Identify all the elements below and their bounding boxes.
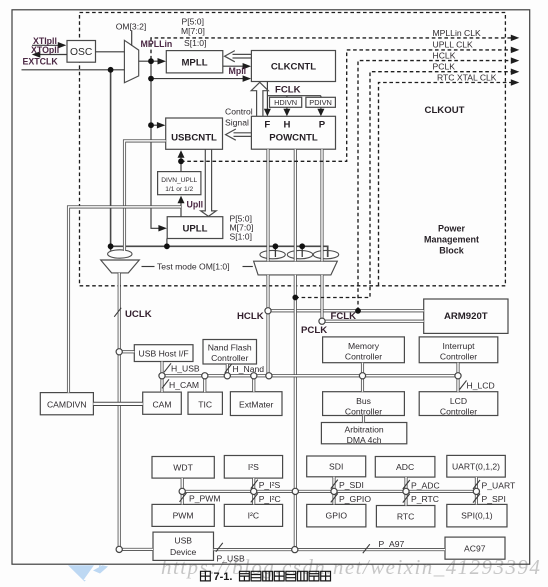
test mux switch ellipse F <box>260 250 285 258</box>
mux OM[3:2] clock source select <box>124 40 138 82</box>
svg-text:OM[3:2]: OM[3:2] <box>116 21 147 31</box>
arrowhead UPLL CLK <box>511 47 520 54</box>
arrowhead XTOpll <box>32 51 41 58</box>
node APB bus SDI/GPIO circle <box>331 488 337 494</box>
svg-text:UCLK: UCLK <box>125 309 152 320</box>
block CLKCNTL <box>251 51 335 82</box>
node APB bus P_PWM circle <box>179 488 185 494</box>
wire test mode label left segment <box>142 266 155 268</box>
junction HCLK clkout tap <box>355 308 361 314</box>
svg-text:FCLK: FCLK <box>331 311 357 322</box>
dashed net MPLLin CLK to CLKOUT <box>151 38 511 60</box>
bus slash P_UART <box>473 480 480 489</box>
wire EXTCLK to mux <box>22 69 125 71</box>
wire UCLK into USB Device <box>119 548 153 551</box>
svg-text:Device: Device <box>170 547 196 557</box>
svg-text:AC97: AC97 <box>464 544 486 554</box>
svg-text:UPLL: UPLL <box>182 224 207 235</box>
svg-text:H_CAM: H_CAM <box>169 380 199 390</box>
node AHB bus TIC circle <box>202 373 208 379</box>
bus slash P_ADC <box>403 480 410 489</box>
wire FCLK to ARM920T <box>322 320 424 323</box>
wire MPLLin branch to USBCNTL <box>151 124 160 126</box>
block TIC <box>188 392 222 414</box>
arrowhead H into POWCNTL <box>283 109 290 117</box>
junction UPLL bottom tap <box>164 243 170 249</box>
svg-text:H: H <box>284 120 291 131</box>
junction MPLLin to CLKCNTL <box>148 76 154 82</box>
block UPLL <box>167 217 223 239</box>
svg-text:H_Nand: H_Nand <box>233 364 265 374</box>
svg-text:USB Host I/F: USB Host I/F <box>139 349 189 359</box>
wire ADC RTC tap on APB bus <box>404 477 407 505</box>
watermark csdn logo blue chevron <box>68 565 102 581</box>
test mux left switch ellipse <box>108 250 132 258</box>
arrowhead MPLLin into CLKCNTL <box>243 75 252 82</box>
block UART <box>447 455 506 477</box>
junction EXTCLK test tap <box>108 67 114 73</box>
wire Memory Controller to Bus Controller via AHB bus <box>361 363 364 392</box>
hollow arrow control from POWCNTL to USBCNTL <box>226 129 252 140</box>
block Interrupt Controller <box>419 337 498 363</box>
node HCLK branch circle <box>265 308 271 314</box>
wire UART SPI tap on APB bus <box>475 477 478 504</box>
svg-text:PCLK: PCLK <box>301 325 327 336</box>
svg-text:P_PWM: P_PWM <box>189 493 221 503</box>
bus slash P_PWM <box>180 493 187 502</box>
block USBCNTL <box>166 118 223 149</box>
wire HCLK branch to ARM920T <box>268 309 424 312</box>
svg-text:UPLL CLK: UPLL CLK <box>433 40 474 50</box>
svg-text:1/1 or 1/2: 1/1 or 1/2 <box>165 186 193 193</box>
svg-text:Controller: Controller <box>345 352 382 362</box>
wire I2S I2C tap on APB bus <box>252 478 255 504</box>
Power Management Block dashed boundary <box>80 13 506 286</box>
wire H output POWCNTL to test mux <box>294 149 297 261</box>
wire P_USB P_A97 line to AC97 <box>214 548 446 551</box>
junction MPLLin node <box>148 58 154 64</box>
svg-text:Upll: Upll <box>187 199 204 209</box>
dashed net PCLK to CLKOUT <box>295 72 511 298</box>
block Memory Controller <box>323 337 405 363</box>
svg-text:Power: Power <box>438 224 466 234</box>
svg-text:SPI(0,1): SPI(0,1) <box>461 511 493 521</box>
block ADC <box>375 457 435 478</box>
arrowhead into USBCNTL <box>157 122 166 129</box>
svg-text:P_ADC: P_ADC <box>411 481 440 491</box>
divider DIVN_UPLL <box>158 172 201 195</box>
svg-text:DMA 4ch: DMA 4ch <box>347 435 382 445</box>
bus slash P_GPIO <box>331 493 338 502</box>
bus slash P_I2S <box>251 480 258 489</box>
svg-text:Block: Block <box>439 246 465 256</box>
junction UPLL CLK tap <box>178 158 184 164</box>
svg-text:P_RTC: P_RTC <box>411 494 439 504</box>
svg-text:FCLK: FCLK <box>275 84 301 95</box>
svg-text:CLKOUT: CLKOUT <box>425 105 465 116</box>
block RTC <box>376 506 435 527</box>
wire UCLK tap to USB Host I/F <box>119 350 134 353</box>
svg-text:CAM: CAM <box>152 399 171 409</box>
bus slash P_RTC <box>403 494 410 503</box>
block ExtMater <box>230 392 282 416</box>
svg-text:P_SDI: P_SDI <box>339 480 364 490</box>
block POWCNTL <box>251 116 335 149</box>
arrowhead P into POWCNTL <box>317 109 324 117</box>
wire H_Nand tap Nand Flash to AHB bus <box>226 364 229 376</box>
svg-text:ARM920T: ARM920T <box>444 311 488 322</box>
svg-text:I²S: I²S <box>248 462 259 472</box>
wire divided UPLL clock to CAMDIVN <box>69 207 182 393</box>
svg-text:HCLK: HCLK <box>237 311 264 322</box>
bus slash H_CAM <box>162 379 169 388</box>
block I2C <box>224 504 282 526</box>
svg-text:CLKCNTL: CLKCNTL <box>271 62 316 73</box>
svg-text:XTOpll: XTOpll <box>31 45 59 55</box>
block USB Host I/F <box>134 345 193 362</box>
arrowhead Mpll into CLKCNTL <box>243 63 252 69</box>
bus slash H_USB <box>164 363 171 372</box>
node PCLK corner circle at P_USB/P_A97 <box>292 547 298 553</box>
svg-text:Signal: Signal <box>225 117 249 127</box>
node AHB bus HCLK circle <box>266 373 272 379</box>
svg-text:Controller: Controller <box>345 406 382 416</box>
wire PCLK from mux down to APB bus and AC97 line <box>294 275 297 550</box>
svg-text:I²C: I²C <box>248 511 259 521</box>
junction test tap F <box>273 243 279 249</box>
svg-text:P[5:0]: P[5:0] <box>182 16 204 26</box>
wire WDT PWM tap on APB bus <box>181 478 184 504</box>
wire DIVN_UPLL output up to USBCNTL <box>180 156 182 172</box>
wire Mpll output to CLKCNTL <box>223 65 246 67</box>
test mux switch ellipse H <box>287 250 312 258</box>
wire USB Host and CAM taps on AHB bus <box>160 362 163 393</box>
wire P output POWCNTL to test mux <box>320 149 323 261</box>
svg-text:EXTCLK: EXTCLK <box>23 56 59 66</box>
divider HDIVN <box>270 97 302 107</box>
block CAM <box>143 392 182 414</box>
svg-text:M[7:0]: M[7:0] <box>181 26 205 36</box>
svg-text:P_GPIO: P_GPIO <box>339 494 371 504</box>
arrowhead RTC XTAL CLK <box>511 79 520 86</box>
wire XTIpll into OSC <box>32 44 61 46</box>
svg-text:S[1:0]: S[1:0] <box>184 38 206 48</box>
node APB bus UART/SPI circle <box>473 488 479 494</box>
node AHB bus ExtMater circle <box>251 373 257 379</box>
svg-text:CAMDIVN: CAMDIVN <box>47 399 87 409</box>
node FCLK corner circle <box>319 318 325 324</box>
OM[3:2] select stem <box>131 30 133 45</box>
svg-text:MPLLin CLK: MPLLin CLK <box>433 28 482 38</box>
wire MPLLin mux output to MPLL <box>139 60 161 62</box>
block PWM <box>152 504 214 526</box>
svg-text:H_USB: H_USB <box>171 363 200 373</box>
wire Interrupt Controller to LCD Controller H_LCD <box>456 363 459 392</box>
svg-text:RTC: RTC <box>397 512 415 522</box>
svg-text:OSC: OSC <box>70 47 93 58</box>
wire OSC output to mux <box>96 51 125 53</box>
block AC97 <box>445 537 505 559</box>
svg-text:Test mode OM[1:0]: Test mode OM[1:0] <box>157 262 230 272</box>
test mux switch ellipse P <box>313 250 338 258</box>
block USB Device <box>153 532 214 560</box>
wire test clock distribution to mux switches <box>111 246 328 257</box>
svg-text:P_USB: P_USB <box>217 553 245 563</box>
svg-text:TIC: TIC <box>198 399 212 409</box>
arrowhead XTIpll <box>58 42 67 49</box>
junction test tap H <box>299 243 305 249</box>
svg-text:SDI: SDI <box>329 462 343 472</box>
wire FCLK from CLKCNTL to divider tee <box>267 82 321 96</box>
svg-text:PCLK: PCLK <box>433 61 456 71</box>
bus slash P_SPI <box>473 494 480 503</box>
wire MPLLin branch to CLKCNTL <box>151 78 246 80</box>
test mux right (FCLK/HCLK/PCLK) trapezoid <box>254 261 338 275</box>
svg-text:P: P <box>319 120 326 131</box>
divider PDIVN <box>306 97 336 107</box>
svg-text:S[1:0]: S[1:0] <box>230 231 252 241</box>
wire CAMDIVN to CAM <box>93 402 142 406</box>
wire UPLL bottom tap to test line <box>166 239 168 247</box>
svg-text:Interrupt: Interrupt <box>442 341 475 351</box>
svg-text:USB: USB <box>174 536 192 546</box>
arrowhead MPLLin CLK <box>511 35 520 42</box>
wire FCLK from mux down <box>320 275 323 321</box>
bus slash H_Nand <box>225 364 232 373</box>
node APB bus ADC/RTC circle <box>403 488 409 494</box>
dashed net UPLL CLK to CLKOUT <box>181 50 511 161</box>
node APB bus I2S/I2C circle <box>251 488 257 494</box>
svg-text:ADC: ADC <box>396 462 414 472</box>
arrowhead into USBCNTL bottom <box>178 150 185 158</box>
svg-text:Controller: Controller <box>440 406 477 416</box>
svg-text:Management: Management <box>424 235 479 245</box>
wire test tap into switch F <box>274 246 276 257</box>
svg-text:F: F <box>264 120 270 131</box>
dashed net RTC XTAL CLK to CLKOUT <box>379 83 512 286</box>
wire SDI GPIO tap on APB bus <box>332 477 335 505</box>
wire AHB bus to ExtMater <box>252 376 255 392</box>
svg-text:HDIVN: HDIVN <box>274 98 297 107</box>
block Nand Flash Controller <box>203 340 257 365</box>
svg-text:P_I²S: P_I²S <box>259 480 281 490</box>
bus slash UCLK <box>114 308 121 317</box>
svg-text:HCLK: HCLK <box>433 50 456 60</box>
svg-text:7-1.: 7-1. <box>214 571 233 583</box>
node AHB bus H_LCD circle <box>455 373 461 379</box>
block MPLL <box>166 51 223 73</box>
svg-text:UART(0,1,2): UART(0,1,2) <box>452 462 500 472</box>
wire UCLK from test mux down to USB Device <box>118 273 121 550</box>
arrowhead MPLLin into MPLL <box>158 58 167 64</box>
svg-text:Mpll: Mpll <box>229 66 247 76</box>
wire test mode label right segment <box>243 266 253 268</box>
svg-text:LCD: LCD <box>450 396 467 406</box>
bus slash P_A97 <box>363 544 370 553</box>
svg-text:WDT: WDT <box>173 463 193 473</box>
svg-text:Nand Flash: Nand Flash <box>208 343 252 353</box>
junction MPLLin to USBCNTL <box>148 122 154 128</box>
block WDT <box>152 457 214 479</box>
svg-text:Memory: Memory <box>348 341 380 351</box>
arrowhead PCLK <box>511 68 520 75</box>
svg-text:DIVN_UPLL: DIVN_UPLL <box>161 177 197 184</box>
node UCLK tap circle at USB Host <box>116 349 122 355</box>
wire Bus Controller to Arbitration DMA <box>362 416 365 423</box>
wire F branch into POWCNTL <box>266 96 268 111</box>
block CAMDIVN <box>40 393 93 415</box>
wire P branch through PDIVN <box>320 96 322 111</box>
block GPIO <box>307 504 366 527</box>
wire HCLK from mux down to AHB bus <box>266 275 269 376</box>
wire AHB bus to TIC <box>203 376 206 392</box>
dashed net HCLK to CLKOUT <box>358 61 511 311</box>
node AHB bus Memory/Bus circle <box>359 373 365 379</box>
node UCLK corner circle at USB Device <box>116 546 122 552</box>
arrowhead F into POWCNTL <box>264 109 271 117</box>
svg-text:Arbitration: Arbitration <box>345 424 384 434</box>
wire MPLLin feed down to UPLL <box>151 61 161 228</box>
oscillator OSC <box>67 41 96 63</box>
arrowhead Upll into DIVN_UPLL <box>178 196 185 204</box>
bus slash P_I2C <box>251 493 258 502</box>
node AHB bus H_Nand circle <box>224 373 230 379</box>
svg-text:P_A97: P_A97 <box>379 539 405 549</box>
junction test line at left mux <box>108 243 114 249</box>
bus slash H_LCD <box>460 381 467 390</box>
svg-text:Control: Control <box>225 106 253 116</box>
wire USBCNTL clock to left test mux <box>125 141 166 251</box>
svg-text:Controller: Controller <box>440 352 477 362</box>
svg-text:Controller: Controller <box>211 353 248 363</box>
wire APB PCLK bus <box>182 490 476 493</box>
svg-text:PDIVN: PDIVN <box>309 98 332 107</box>
wire AHB HCLK bus <box>162 374 458 377</box>
svg-text:GPIO: GPIO <box>326 511 348 521</box>
node AHB bus H_USB/H_CAM circle <box>159 373 165 379</box>
svg-text:Bus: Bus <box>356 396 371 406</box>
watermark csdn url text <box>161 555 541 580</box>
wire Upll from UPLL up to DIVN_UPLL <box>180 201 182 217</box>
bus slash P_SDI <box>331 480 338 489</box>
bus slash P_USB <box>216 543 223 552</box>
block Bus Controller <box>323 392 405 416</box>
svg-text:MPLL: MPLL <box>181 57 207 68</box>
wire EXTCLK test clock down to test mux <box>110 70 112 251</box>
arrowhead HCLK <box>511 57 520 64</box>
test mux left (UCLK) trapezoid <box>101 260 140 273</box>
svg-text:P_SPI: P_SPI <box>482 494 506 504</box>
arrowhead into UPLL <box>158 225 167 232</box>
hollow arrow from POWCNTL up to CLKCNTL <box>251 82 268 116</box>
wire H branch through HDIVN <box>286 96 288 111</box>
caption figure 7-1 chinese text <box>201 571 331 581</box>
hollow arrow P,M,S from USBCNTL down to UPLL <box>201 149 217 216</box>
block LCD Controller <box>419 392 498 416</box>
svg-text:ExtMater: ExtMater <box>239 400 274 410</box>
svg-text:P_I²C: P_I²C <box>259 494 281 504</box>
block SPI <box>447 504 507 527</box>
block Arbitration DMA 4ch <box>321 423 406 444</box>
node APB bus PCLK circle <box>292 488 298 494</box>
svg-text:MPLLin: MPLLin <box>141 39 173 49</box>
svg-text:RTC XTAL CLK: RTC XTAL CLK <box>437 72 497 82</box>
wire test tap into switch H <box>301 246 303 257</box>
processor ARM920T <box>424 299 508 333</box>
svg-text:PWM: PWM <box>173 511 194 521</box>
junction PCLK clkout tap <box>292 295 298 301</box>
wire F output POWCNTL to test mux <box>266 149 269 261</box>
hollow arrow P,M,S from CLKCNTL to MPLL <box>225 51 252 62</box>
svg-text:H_LCD: H_LCD <box>467 380 495 390</box>
wire XTOpll out of OSC <box>37 54 67 56</box>
block SDI <box>307 456 366 477</box>
block I2S <box>224 456 282 479</box>
svg-text:P_UART: P_UART <box>482 481 517 491</box>
svg-text:USBCNTL: USBCNTL <box>171 133 217 144</box>
svg-text:POWCNTL: POWCNTL <box>269 133 318 144</box>
